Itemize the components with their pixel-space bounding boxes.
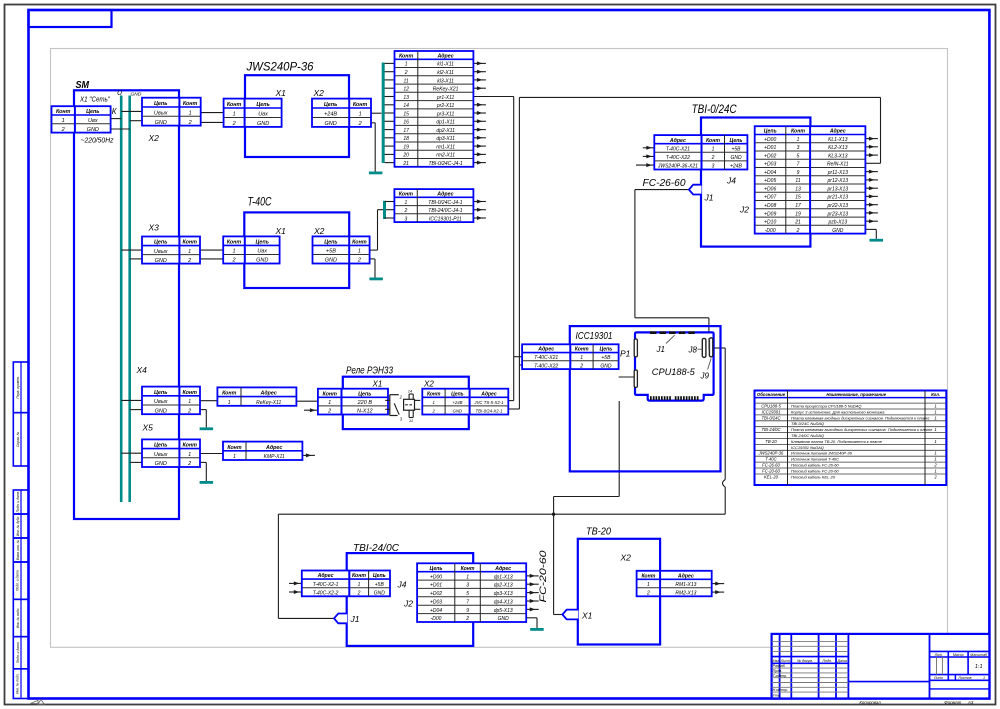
label K xyxy=(112,107,118,116)
svg-text:14: 14 xyxy=(408,389,413,394)
svg-text:ICC19301-P11: ICC19301-P11 xyxy=(429,216,462,222)
svg-text:SM: SM xyxy=(76,80,90,91)
svg-text:1: 1 xyxy=(188,399,191,405)
wire +24V-bus xyxy=(371,112,382,114)
svg-text:1: 1 xyxy=(983,676,985,680)
svg-text:Цепь: Цепь xyxy=(154,101,167,107)
svg-text:3: 3 xyxy=(712,164,715,170)
svg-text:Адрес: Адрес xyxy=(436,53,453,59)
svg-text:T-40C-X21: T-40C-X21 xyxy=(666,147,690,153)
svg-text:Конт: Конт xyxy=(56,109,71,115)
svg-text:15: 15 xyxy=(795,195,801,201)
svg-text:Цепь: Цепь xyxy=(430,566,443,572)
svg-text:Копировал: Копировал xyxy=(859,700,881,705)
block relay REN33 xyxy=(343,366,469,430)
svg-text:№ докум.: № докум. xyxy=(797,659,813,663)
svg-text:Конт: Конт xyxy=(706,138,720,144)
svg-text:pr13-X13: pr13-X13 xyxy=(827,187,849,193)
svg-text:pr11-X13: pr11-X13 xyxy=(827,170,848,176)
wire TBI-R out arrows xyxy=(865,137,878,224)
svg-text:1: 1 xyxy=(580,355,583,361)
svg-text:Адрес: Адрес xyxy=(265,445,282,451)
svg-text:1: 1 xyxy=(228,400,231,406)
svg-text:2: 2 xyxy=(357,258,361,264)
svg-text:pr1-X11: pr1-X11 xyxy=(436,95,455,101)
svg-text:GND: GND xyxy=(832,228,844,234)
svg-text:Формат: Формат xyxy=(944,700,961,705)
svg-text:Цепь: Цепь xyxy=(358,391,371,397)
svg-text:GND: GND xyxy=(87,127,99,133)
svg-text:1: 1 xyxy=(934,457,936,462)
address table 1 xyxy=(395,51,474,167)
label U xyxy=(117,90,123,97)
svg-text:Uвх: Uвх xyxy=(88,118,98,124)
svg-text:16: 16 xyxy=(403,120,409,126)
wire bus-table1 stubs xyxy=(385,63,395,162)
wire ICC stubs xyxy=(514,357,522,365)
svg-text:kl2-X11: kl2-X11 xyxy=(437,70,454,76)
svg-text:1: 1 xyxy=(405,200,408,206)
label TBI24 J1 xyxy=(350,614,360,624)
svg-text:19: 19 xyxy=(403,144,409,150)
svg-text:X2: X2 xyxy=(313,226,325,236)
svg-text:TBI-0/24C-J4-1: TBI-0/24C-J4-1 xyxy=(429,161,463,167)
svg-text:X1 "Сеть": X1 "Сеть" xyxy=(79,95,110,104)
svg-text:Адрес: Адрес xyxy=(669,138,686,144)
svg-text:ICC19301 NuDAQ: ICC19301 NuDAQ xyxy=(791,445,824,450)
svg-text:Плоский кабель FC-20-60: Плоский кабель FC-20-60 xyxy=(791,469,839,474)
svg-text:JWS240P-36: JWS240P-36 xyxy=(246,62,315,74)
wire X4 GND xyxy=(200,410,206,428)
svg-text:Конт: Конт xyxy=(227,240,242,246)
svg-text:Подп. и дата: Подп. и дата xyxy=(16,642,20,663)
svg-text:Дата: Дата xyxy=(836,659,846,663)
connector X1 TB-20 xyxy=(562,610,578,620)
svg-text:+D08: +D08 xyxy=(764,203,776,209)
svg-text:Цепь: Цепь xyxy=(86,109,99,115)
svg-text:Плата процессора CPU188-5 NuDA: Плата процессора CPU188-5 NuDAQ xyxy=(791,404,861,409)
svg-text:Uвых: Uвых xyxy=(154,399,168,405)
svg-text:+5В: +5В xyxy=(731,147,741,153)
svg-text:2: 2 xyxy=(327,409,331,415)
wire GND-X3.2 xyxy=(130,258,142,260)
svg-text:Источник питания T-40C: Источник питания T-40C xyxy=(791,457,839,462)
svg-text:1: 1 xyxy=(188,249,191,255)
svg-text:X4: X4 xyxy=(136,365,148,375)
svg-text:GND: GND xyxy=(453,409,463,414)
svg-text:P1: P1 xyxy=(620,349,631,359)
wire TBI GND xyxy=(865,229,876,238)
svg-text:GND: GND xyxy=(374,591,386,597)
svg-text:TBI-0/24-X2-1: TBI-0/24-X2-1 xyxy=(476,409,504,414)
svg-text:21: 21 xyxy=(402,161,409,167)
address table TBI-0/24C J4 xyxy=(654,135,747,170)
svg-text:Конт: Конт xyxy=(322,391,337,397)
wire TBI24-L stubs xyxy=(289,581,302,594)
svg-text:9: 9 xyxy=(466,608,469,614)
svg-text:Цепь: Цепь xyxy=(764,129,777,135)
svg-text:Утв.: Утв. xyxy=(773,694,781,698)
svg-text:Адрес: Адрес xyxy=(677,573,694,579)
svg-text:2: 2 xyxy=(711,155,715,161)
svg-text:20: 20 xyxy=(402,153,409,159)
svg-text:Т.контр.: Т.контр. xyxy=(773,674,788,678)
block TBI-0/24C xyxy=(692,104,811,247)
svg-text:Взам. инв. №: Взам. инв. № xyxy=(16,539,20,560)
svg-text:TBI-0/24C: TBI-0/24C xyxy=(761,415,781,420)
svg-text:1: 1 xyxy=(405,62,408,68)
label TBI J4 xyxy=(726,176,736,186)
svg-text:dp5-X13: dp5-X13 xyxy=(494,608,513,614)
svg-text:TBI-0/24C: TBI-0/24C xyxy=(692,104,738,116)
svg-text:T-40C-X22: T-40C-X22 xyxy=(534,363,558,369)
footer labels xyxy=(859,700,974,705)
svg-text:dp3-X11: dp3-X11 xyxy=(436,136,455,142)
svg-text:+D10: +D10 xyxy=(764,220,776,226)
svg-text:+D02: +D02 xyxy=(430,591,442,597)
svg-text:GND: GND xyxy=(498,616,510,622)
svg-text:3: 3 xyxy=(466,583,469,589)
svg-text:+D05: +D05 xyxy=(764,178,776,184)
svg-text:Конт: Конт xyxy=(182,443,197,449)
ground T40C xyxy=(369,278,383,281)
svg-text:2: 2 xyxy=(357,591,361,597)
address table ReKey xyxy=(217,387,296,406)
wire X2.1-JWS xyxy=(201,112,224,114)
svg-text:Uвых: Uвых xyxy=(154,249,168,255)
svg-text:1:1: 1:1 xyxy=(975,664,983,670)
svg-text:ReKey-X21: ReKey-X21 xyxy=(433,87,459,93)
svg-text:Адрес: Адрес xyxy=(436,191,453,197)
svg-text:Адрес: Адрес xyxy=(317,573,334,579)
svg-text:KL3-X13: KL3-X13 xyxy=(828,153,848,159)
svg-text:ReKey-X11: ReKey-X11 xyxy=(256,400,281,406)
title block xyxy=(772,634,990,699)
svg-text:JVC TS-5-X2-1: JVC TS-5-X2-1 xyxy=(473,400,504,405)
svg-text:Адрес: Адрес xyxy=(537,347,554,353)
svg-text:1: 1 xyxy=(797,137,800,143)
svg-text:1: 1 xyxy=(328,400,331,406)
svg-text:N-X12: N-X12 xyxy=(357,409,373,415)
svg-text:1: 1 xyxy=(712,147,715,153)
svg-text:dp3-X13: dp3-X13 xyxy=(494,591,513,597)
svg-text:-D00: -D00 xyxy=(765,228,776,234)
wire T40C GND xyxy=(371,259,376,278)
svg-text:T-40C-X2-1: T-40C-X2-1 xyxy=(313,582,339,588)
svg-text:Подп. и дата: Подп. и дата xyxy=(16,570,20,591)
svg-text:+D01: +D01 xyxy=(764,145,776,151)
connector table SM X4 xyxy=(142,387,200,415)
svg-text:J1: J1 xyxy=(656,345,665,354)
svg-text:Масса: Масса xyxy=(953,653,964,657)
label TB20 X1 xyxy=(581,611,593,621)
svg-text:+5В: +5В xyxy=(375,582,385,588)
wire U-X4.1 xyxy=(121,399,142,401)
wire X3.2-T40C xyxy=(200,258,223,260)
svg-text:GND: GND xyxy=(155,120,167,126)
svg-text:dp1-X13: dp1-X13 xyxy=(494,574,513,580)
ground JWS xyxy=(369,172,383,175)
label P1 xyxy=(620,349,631,359)
svg-text:Разраб.: Разраб. xyxy=(773,664,786,668)
svg-text:1: 1 xyxy=(466,574,469,580)
svg-text:Цепь: Цепь xyxy=(730,138,743,144)
svg-text:+5В: +5В xyxy=(601,355,611,361)
svg-text:GND: GND xyxy=(131,92,142,98)
svg-text:+D00: +D00 xyxy=(430,574,442,580)
svg-text:TBI-24/0C-J4-1: TBI-24/0C-J4-1 xyxy=(428,208,462,214)
svg-text:Конт: Конт xyxy=(791,129,805,135)
svg-text:T-40C-X21: T-40C-X21 xyxy=(534,355,558,361)
svg-text:pr22-X13: pr22-X13 xyxy=(827,203,849,209)
svg-text:X1: X1 xyxy=(581,611,593,621)
svg-text:GND: GND xyxy=(257,121,269,127)
svg-text:+24В: +24В xyxy=(324,112,337,118)
svg-text:Цепь: Цепь xyxy=(256,102,269,108)
svg-text:+5В: +5В xyxy=(326,249,336,255)
svg-text:J2: J2 xyxy=(739,205,749,215)
svg-text:KL2-X13: KL2-X13 xyxy=(828,145,848,151)
svg-text:11: 11 xyxy=(795,178,800,184)
svg-text:RM1-X13: RM1-X13 xyxy=(675,582,696,588)
address table TBI-0/24C J2 xyxy=(755,126,866,234)
connector J1 TBI-24/0C xyxy=(334,614,347,624)
svg-text:Изм.: Изм. xyxy=(772,659,780,663)
label TBI24 J2 xyxy=(403,599,413,609)
svg-text:TBI-24/0C: TBI-24/0C xyxy=(761,427,781,432)
svg-text:Конт: Конт xyxy=(641,573,655,579)
label GND xyxy=(131,92,142,98)
svg-text:GND: GND xyxy=(155,408,167,414)
svg-text:Плата клеммная входных дискрет: Плата клеммная входных дискретных сигнал… xyxy=(791,415,930,420)
svg-text:+D07: +D07 xyxy=(764,195,776,201)
svg-text:2: 2 xyxy=(187,258,191,264)
svg-text:1: 1 xyxy=(934,404,936,409)
svg-text:Конт: Конт xyxy=(352,573,366,579)
wire GND-X2.2 xyxy=(130,120,142,122)
svg-text:13: 13 xyxy=(403,95,409,101)
svg-text:KMP-X11: KMP-X11 xyxy=(264,454,285,460)
wire X4-ReKey xyxy=(200,400,217,402)
svg-text:RM2-X13: RM2-X13 xyxy=(675,591,696,597)
block T-40C xyxy=(244,197,349,289)
svg-text:Uвх: Uвх xyxy=(258,112,268,118)
wire J9 cable xyxy=(278,348,725,618)
svg-text:GND: GND xyxy=(155,258,167,264)
connector table SM X1 xyxy=(52,106,111,133)
svg-text:Цепь: Цепь xyxy=(154,443,167,449)
svg-text:18: 18 xyxy=(403,136,409,142)
teal bus table2 xyxy=(383,201,386,219)
svg-text:1: 1 xyxy=(934,439,936,444)
wire TB20 out arrows xyxy=(712,582,725,595)
svg-text:Цепь: Цепь xyxy=(599,347,612,353)
label X1 Сеть xyxy=(79,95,110,104)
svg-text:GND: GND xyxy=(256,258,268,264)
svg-text:1: 1 xyxy=(188,452,191,458)
svg-text:3: 3 xyxy=(797,145,800,151)
label X2 xyxy=(148,133,160,143)
svg-text:Конт: Конт xyxy=(182,240,197,246)
svg-text:TB-20: TB-20 xyxy=(586,526,611,538)
junction xyxy=(552,513,555,516)
label TBI24 J4 xyxy=(397,580,407,590)
svg-text:FC-20-60: FC-20-60 xyxy=(762,469,780,474)
wire seg xyxy=(178,302,180,345)
svg-text:2: 2 xyxy=(187,461,191,467)
svg-text:Инв. № подл.: Инв. № подл. xyxy=(16,673,20,694)
svg-text:~220/50Hz: ~220/50Hz xyxy=(81,138,114,145)
label 220/50Hz xyxy=(81,138,114,145)
svg-text:Пров.: Пров. xyxy=(773,669,782,673)
wire FC-20-60 xyxy=(554,401,620,615)
svg-text:Лист: Лист xyxy=(780,659,790,663)
wire FC-26-60 xyxy=(635,190,709,350)
wire table2 out arrows xyxy=(473,200,486,221)
svg-text:pr23-X13: pr23-X13 xyxy=(827,211,849,217)
svg-text:2: 2 xyxy=(232,121,236,127)
svg-text:T-40C-X22: T-40C-X22 xyxy=(666,155,690,161)
label TBI J1 xyxy=(704,193,714,203)
svg-text:7: 7 xyxy=(466,599,469,605)
svg-text:Цепь: Цепь xyxy=(154,390,167,396)
ground TBI xyxy=(870,239,884,242)
svg-text:+D03: +D03 xyxy=(764,162,776,168)
wire KMP out xyxy=(302,453,315,457)
svg-text:Цепь: Цепь xyxy=(451,391,463,397)
svg-text:X5: X5 xyxy=(142,423,154,433)
svg-text:1: 1 xyxy=(934,415,936,420)
svg-text:Конт: Конт xyxy=(399,191,413,197)
svg-text:pzb-X13: pzb-X13 xyxy=(827,220,847,226)
block JWS240P-36 xyxy=(245,62,349,158)
svg-text:2: 2 xyxy=(231,258,235,264)
svg-text:pr3-X11: pr3-X11 xyxy=(436,111,455,117)
svg-text:kl3-X11: kl3-X11 xyxy=(437,78,454,84)
address table TBI-24/0C J2 xyxy=(417,563,526,622)
svg-text:pr2-X11: pr2-X11 xyxy=(436,103,455,109)
label relay X2 xyxy=(423,380,434,389)
connector table TB-20 X2 xyxy=(637,571,712,597)
svg-text:T-40C-X2-2: T-40C-X2-2 xyxy=(313,591,339,597)
svg-text:GND: GND xyxy=(155,461,167,467)
svg-text:J8: J8 xyxy=(688,346,698,355)
wire JWS GND xyxy=(371,123,375,172)
label X5 xyxy=(142,423,154,433)
svg-text:Конт: Конт xyxy=(222,391,236,397)
svg-text:pr12-X13: pr12-X13 xyxy=(827,178,849,184)
svg-text:+D03: +D03 xyxy=(430,599,442,605)
svg-text:1: 1 xyxy=(359,112,362,118)
svg-text:X1: X1 xyxy=(372,380,383,389)
label TBI J2 xyxy=(739,205,749,215)
svg-text:1: 1 xyxy=(934,409,936,414)
svg-text:Перв. примен.: Перв. примен. xyxy=(16,376,20,399)
svg-text:Корпус 3 исполнение. Для насто: Корпус 3 исполнение. Для настольного мон… xyxy=(791,409,885,414)
svg-text:Конт: Конт xyxy=(227,445,241,451)
svg-text:Uвых: Uвых xyxy=(154,452,168,458)
connector table T40C X1 xyxy=(223,236,279,263)
svg-text:12: 12 xyxy=(403,87,409,93)
wire relay N arrow xyxy=(304,408,318,412)
svg-text:Клеммная плата TB-20. Подключа: Клеммная плата TB-20. Подключается к пла… xyxy=(791,439,883,444)
wire B ReIN xyxy=(508,97,880,409)
legend specification table xyxy=(755,391,947,486)
svg-text:2: 2 xyxy=(61,127,65,133)
connector table SM X5 xyxy=(142,439,200,467)
svg-text:GND: GND xyxy=(325,258,337,264)
CPU board CPU188-5 xyxy=(634,331,713,400)
svg-text:Цепь: Цепь xyxy=(154,240,167,246)
svg-text:Конт: Конт xyxy=(227,102,242,108)
svg-text:Конт: Конт xyxy=(461,566,475,572)
svg-text:1: 1 xyxy=(934,451,936,456)
svg-text:rm2-X11: rm2-X11 xyxy=(436,153,455,159)
svg-text:1: 1 xyxy=(934,469,936,474)
svg-text:1: 1 xyxy=(233,112,236,118)
svg-text:JWS240P-36-X21: JWS240P-36-X21 xyxy=(657,164,698,170)
svg-text:Адрес: Адрес xyxy=(494,566,511,572)
svg-text:KL1-X13: KL1-X13 xyxy=(828,137,848,143)
svg-text:ICC19301: ICC19301 xyxy=(762,409,781,414)
svg-text:T-40C: T-40C xyxy=(765,457,777,462)
wire GND-X4.2 xyxy=(130,409,142,411)
svg-text:+D04: +D04 xyxy=(430,608,442,614)
svg-text:1: 1 xyxy=(233,454,236,460)
svg-text:1: 1 xyxy=(358,249,361,255)
svg-text:TB-20: TB-20 xyxy=(765,439,777,444)
svg-text:2: 2 xyxy=(796,228,800,234)
ground X4 xyxy=(200,427,214,430)
svg-text:Н.контр.: Н.контр. xyxy=(773,688,788,692)
svg-text:1: 1 xyxy=(358,582,361,588)
block SM xyxy=(74,80,179,519)
svg-text:A3: A3 xyxy=(967,700,974,705)
svg-text:15: 15 xyxy=(403,111,409,117)
connector table T40C X2 xyxy=(313,236,370,263)
svg-text:Цепь: Цепь xyxy=(324,102,337,108)
svg-text:FC-26-60: FC-26-60 xyxy=(643,177,686,189)
svg-text:Конт: Конт xyxy=(399,53,413,59)
svg-text:220 В: 220 В xyxy=(357,400,373,406)
svg-text:dp2-X11: dp2-X11 xyxy=(436,128,455,134)
svg-text:Инв. № дубл.: Инв. № дубл. xyxy=(16,516,20,536)
svg-text:X2: X2 xyxy=(423,380,434,389)
svg-text:GND: GND xyxy=(600,363,612,369)
svg-text:Uвх: Uвх xyxy=(257,249,267,255)
label JWS X1 xyxy=(275,88,287,98)
svg-text:19: 19 xyxy=(795,211,801,217)
svg-text:1: 1 xyxy=(934,427,936,432)
svg-text:T-40C: T-40C xyxy=(248,197,273,209)
svg-text:Листов: Листов xyxy=(957,676,971,680)
teal bus table1 xyxy=(382,63,385,164)
connector table JWS X2 xyxy=(312,99,371,128)
svg-text:CPU188-5: CPU188-5 xyxy=(761,404,781,409)
svg-text:+24В: +24В xyxy=(730,164,742,170)
address table ICC19301 P1 xyxy=(522,344,619,369)
svg-text:Плоский кабель KEL-20: Плоский кабель KEL-20 xyxy=(791,474,836,479)
svg-text:X2: X2 xyxy=(148,133,160,143)
svg-text:Лит.: Лит. xyxy=(934,653,943,657)
svg-text:5: 5 xyxy=(797,153,800,159)
svg-text:Конт: Конт xyxy=(183,101,198,107)
wire X1.2-GND xyxy=(111,128,130,130)
svg-text:X3: X3 xyxy=(148,223,160,233)
address table KMP xyxy=(223,442,302,461)
wire P1 slot xyxy=(619,376,636,378)
wire X5 GND xyxy=(200,462,206,481)
